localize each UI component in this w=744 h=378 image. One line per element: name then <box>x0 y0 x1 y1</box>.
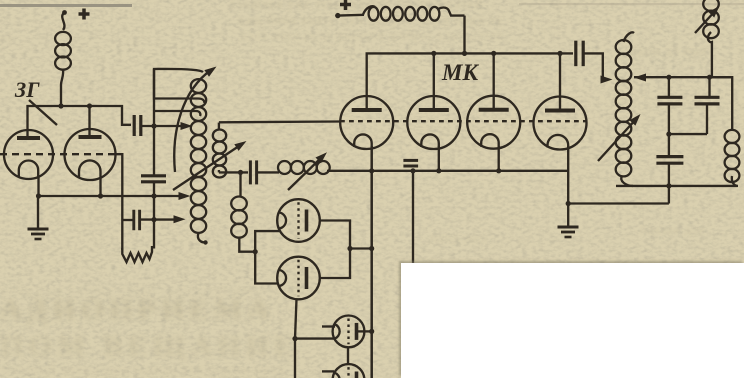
triode tube U1 <box>340 96 393 149</box>
coupling arrow through L2 and L3 <box>173 144 242 190</box>
white paste-over rectangle <box>401 263 744 378</box>
tank bottom rail <box>616 185 737 187</box>
grid blocking capacitor C2 <box>141 174 166 177</box>
triode tube V2 <box>65 129 116 180</box>
equals mark <box>403 159 418 162</box>
output coupling capacitor C5 <box>574 41 577 67</box>
cathode lead U1 / modulation feed <box>370 146 373 378</box>
cathode bus MK <box>327 170 568 172</box>
anode lead U3 <box>493 53 495 109</box>
curved tuning arrow through L2 <box>174 70 211 172</box>
scan edge artifact <box>0 4 132 7</box>
ground right <box>558 226 579 229</box>
cathode wire V1 <box>37 177 39 196</box>
svg-text:ЗГ: ЗГ <box>14 77 40 102</box>
wire hanging feed line <box>412 171 414 264</box>
triode tube V1 <box>4 130 53 179</box>
anode bus MK <box>367 53 573 109</box>
ground <box>37 196 39 229</box>
grid coupling coil L3 <box>213 123 226 178</box>
wire grid to leak network <box>116 154 122 250</box>
grid leak capacitor C4 <box>132 210 135 231</box>
triode tube U4 <box>534 97 587 150</box>
leads C8 <box>668 134 670 157</box>
wire C4 to tap arrow into L2 <box>140 218 180 220</box>
grid return wire with C3 and L5 <box>219 171 248 173</box>
triode tube V5 <box>333 316 365 348</box>
cathode lead U3 <box>498 146 500 171</box>
tank variometer coil L2 <box>191 79 208 245</box>
grid stub V6 <box>322 370 334 372</box>
triode tube V3 <box>277 199 320 242</box>
plate lead V5 <box>358 330 372 332</box>
coupling capacitor C1 <box>133 115 136 136</box>
tank capacitor C6 <box>657 96 682 99</box>
grid bus wire to MK tubes <box>219 120 340 123</box>
grid stub V5 <box>322 325 335 327</box>
plate choke L1 <box>55 10 71 106</box>
anode bus wire ZG <box>28 106 132 137</box>
tuning arrow through L5 <box>288 156 323 190</box>
plate join wires modulator <box>320 221 350 279</box>
cathode wire V2 <box>99 177 101 196</box>
modulator grid coil L6 <box>231 172 255 251</box>
anode lead U4 <box>559 53 561 109</box>
wire to small tube V5 <box>295 337 335 339</box>
cathode lead U4 + drop to ground <box>567 146 569 227</box>
antenna series capacitor C7 <box>695 96 720 99</box>
tuning arrow through L8 <box>695 10 716 33</box>
tap arrow from tank to antenna network <box>634 74 646 82</box>
anode lead U2 <box>433 53 435 109</box>
svg-text:МК: МК <box>441 60 479 85</box>
grid tie loop <box>255 231 279 283</box>
leads C7 <box>708 77 710 97</box>
cathode bus wire with tap arrow into L2 <box>38 195 185 197</box>
cathode lead U2 <box>438 146 440 171</box>
variable coupling coil L5 <box>278 161 330 174</box>
shared grid line (dashed) <box>0 153 116 155</box>
tank capacitor C8 <box>656 155 683 158</box>
tank variometer coil L7 <box>616 32 634 186</box>
cathode drop V4 <box>295 299 297 378</box>
tuning arrow through L7 <box>598 118 637 161</box>
grid leak resistor R1 <box>122 246 152 262</box>
interconnect V5-V6 <box>347 348 349 365</box>
plus supply terminal MK <box>340 0 351 10</box>
antenna variometer L8 <box>703 0 719 77</box>
plate supply choke L4 <box>335 6 464 53</box>
plus supply terminal <box>79 9 90 20</box>
triode tube U2 <box>407 96 460 149</box>
ground return wire <box>567 202 669 204</box>
pointer line from ZG label <box>29 100 57 125</box>
wire tube V2 anode lead <box>88 106 90 135</box>
wire C2 bottom to cathode bus <box>153 182 155 249</box>
wire C5 to tap arrow into L7 <box>584 53 605 79</box>
antenna loading coil L9 <box>710 77 740 186</box>
triode tube U3 <box>467 96 520 149</box>
grid capacitor C3 <box>249 160 252 184</box>
link winding turn 3 <box>154 111 200 116</box>
wire C4 left lead <box>122 219 134 221</box>
leads C6 <box>668 77 670 97</box>
dashed grid line through MK tubes <box>340 120 587 122</box>
node wire C6-C7 <box>669 133 707 135</box>
triode tube V6 <box>333 364 365 378</box>
triode tube V4 <box>277 257 320 300</box>
link winding loop (2 turns) <box>154 69 204 103</box>
wire C1 to tap arrow into L2 <box>141 125 187 127</box>
